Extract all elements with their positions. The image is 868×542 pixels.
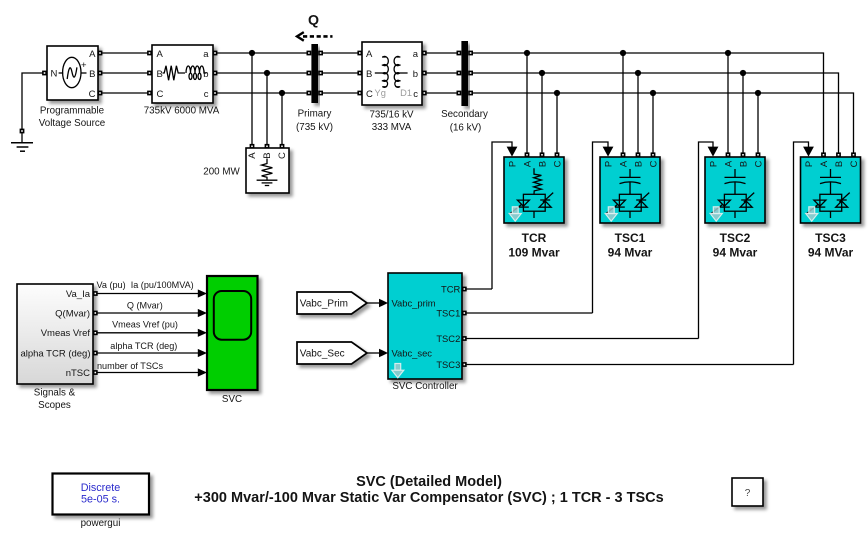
svg-text:B: B [157, 69, 163, 80]
svg-text:Scopes: Scopes [38, 400, 71, 411]
svg-text:Vmeas Vref (pu): Vmeas Vref (pu) [112, 320, 178, 330]
wire phase b transformer to secondary bus [427, 72, 459, 74]
svg-text:735kV 6000 MVA: 735kV 6000 MVA [144, 106, 220, 117]
junction load tap phase A [249, 50, 255, 56]
wire load drop phase C [280, 93, 285, 149]
subsystem Signals and Scopes [17, 284, 93, 384]
junction TSC1 phase B [635, 70, 641, 76]
controller U1 (SVC Controller) [388, 273, 462, 379]
svg-text:C: C [552, 160, 563, 167]
svg-text:A: A [247, 152, 258, 159]
wire phase C RL to primary bus [213, 91, 308, 96]
svg-text:Voltage Source: Voltage Source [39, 118, 106, 129]
svg-text:?: ? [745, 488, 751, 499]
svg-text:B: B [633, 161, 644, 167]
svg-text:5e-05 s.: 5e-05 s. [81, 493, 120, 505]
svg-text:B: B [537, 161, 548, 167]
svg-text:TSC1: TSC1 [436, 307, 460, 318]
wire TCR phase B drop [540, 73, 545, 157]
svg-text:SVC: SVC [222, 394, 242, 405]
wire TSC2 phase C drop [756, 93, 761, 157]
svg-text:109 Mvar: 109 Mvar [508, 246, 560, 260]
label 200 MW [203, 166, 240, 177]
svg-text:P: P [708, 161, 719, 167]
wire controller TCR output [462, 287, 492, 292]
svg-text:Va (pu) Ia (pu/100MVA): Va (pu) Ia (pu/100MVA) [97, 280, 194, 290]
wire phase c transformer to secondary bus [427, 92, 459, 94]
wire controller TSC1 output [462, 311, 593, 316]
junction TSC1 phase A [620, 50, 626, 56]
junction TCR phase A [524, 50, 530, 56]
svg-text:TSC2: TSC2 [720, 231, 751, 245]
svg-text:TSC3: TSC3 [815, 231, 846, 245]
svg-text:Vabc_Sec: Vabc_Sec [300, 349, 345, 360]
wire controller TSC3 output [462, 362, 794, 367]
label TSC2 94 Mvar [713, 231, 758, 260]
junction TSC2 phase A [725, 50, 731, 56]
node label Q [308, 13, 319, 29]
wire Vabc_Prim to controller [367, 299, 388, 308]
wire phase A RL to primary bus [213, 51, 308, 56]
svg-text:735/16 kV: 735/16 kV [369, 109, 414, 120]
wire phase C primary bus to transformer [323, 92, 360, 94]
from tag Vabc_Sec [297, 342, 367, 364]
wire load drop phase B [265, 73, 270, 149]
svg-text:b: b [413, 69, 418, 80]
signal label Vmeas Vref (pu) [112, 320, 178, 330]
label TCR 109 Mvar [508, 231, 560, 260]
svg-text:Q: Q [308, 13, 319, 29]
signal wire alpha TCR to scope [93, 349, 207, 357]
transformer T1 (735/16 kV 333 MVA) [357, 42, 426, 105]
label SVC [222, 394, 242, 405]
wire phase C source to RL [98, 91, 152, 96]
scope SVC [207, 276, 258, 390]
svg-text:a: a [203, 49, 209, 60]
help block ? [732, 478, 763, 506]
svg-text:94 MVar: 94 MVar [808, 246, 854, 260]
signal label Va (pu) Ia (pu/100MVA) [97, 280, 194, 290]
svg-text:Va_Ia: Va_Ia [66, 289, 91, 300]
svg-text:P: P [803, 161, 814, 167]
wire phase A secondary bus to TSC3 [473, 53, 826, 157]
junction TCR phase C [554, 90, 560, 96]
svg-text:A: A [723, 160, 734, 167]
label Signals & Scopes [34, 388, 76, 411]
svg-text:A: A [618, 160, 629, 167]
wire TSC2 pulse feed P [699, 142, 719, 339]
signal label alpha TCR (deg) [110, 341, 177, 351]
signal wire Vmeas Vref to scope [93, 329, 207, 337]
svg-text:C: C [848, 160, 859, 167]
svg-text:C: C [277, 152, 288, 159]
wire TSC1 phase B drop [636, 73, 641, 157]
label Programmable Voltage Source [39, 105, 106, 128]
svg-text:TSC1: TSC1 [615, 231, 646, 245]
load R1 (200 MW resistive load block) [246, 148, 289, 193]
wire phase B RL to primary bus [213, 71, 308, 76]
svg-text:C: C [753, 160, 764, 167]
svg-text:SVC Controller: SVC Controller [392, 381, 458, 392]
svg-text:c: c [413, 89, 418, 100]
wire source N to ground [20, 73, 43, 133]
svg-text:N: N [51, 69, 58, 80]
label SVC Controller [392, 381, 458, 392]
wire load drop phase A [250, 53, 255, 149]
label Primary (735 kV) [296, 109, 333, 134]
wire TCR phase C drop [555, 93, 560, 157]
from tag Vabc_Prim [297, 292, 367, 314]
ground [11, 133, 33, 151]
svg-text:C: C [366, 89, 373, 100]
svg-text:333 MVA: 333 MVA [372, 122, 412, 133]
wire TSC2 phase B drop [741, 73, 746, 157]
wire phase B source to RL [98, 71, 152, 76]
svg-text:A: A [89, 49, 96, 60]
annotation title [194, 474, 663, 506]
junction TSC1 phase C [650, 90, 656, 96]
svg-text:(16 kV): (16 kV) [450, 122, 482, 133]
svg-text:94 Mvar: 94 Mvar [608, 246, 653, 260]
wire TSC1 pulse feed P [593, 142, 614, 313]
label 735/16 kV 333 MVA [369, 109, 414, 133]
svg-text:nTSC: nTSC [66, 368, 90, 379]
svg-text:Vmeas Vref: Vmeas Vref [41, 328, 91, 339]
svg-text:number of TSCs: number of TSCs [97, 361, 163, 371]
svg-text:TCR: TCR [522, 231, 547, 245]
svg-text:Vabc_prim: Vabc_prim [392, 297, 436, 308]
svg-text:Secondary: Secondary [441, 109, 488, 120]
svg-text:B: B [738, 161, 749, 167]
svg-text:B: B [89, 69, 95, 80]
powergui block [53, 474, 150, 515]
svg-text:Primary: Primary [298, 109, 332, 120]
bus B2 Secondary (16 kV) [457, 41, 474, 106]
svg-text:TSC2: TSC2 [436, 333, 460, 344]
svg-text:Programmable: Programmable [40, 105, 105, 116]
svg-text:C: C [157, 89, 164, 100]
wire Vabc_Sec to controller [367, 349, 388, 358]
wire TCR pulse feed P [492, 142, 517, 289]
impedance Z1 (735kV 6000 MVA three-phase source impedance) [152, 45, 213, 103]
TSC1 branch block [600, 157, 660, 223]
svg-text:C: C [89, 89, 96, 100]
wire phase B primary bus to transformer [323, 72, 360, 74]
annotation arrow for Q direction [297, 32, 333, 41]
svg-text:Discrete: Discrete [81, 482, 121, 494]
TCR branch block [504, 157, 564, 223]
svg-text:Q(Mvar): Q(Mvar) [55, 308, 90, 319]
TSC3 branch block [801, 157, 861, 223]
svg-text:+300 Mvar/-100 Mvar Static Var: +300 Mvar/-100 Mvar Static Var Compensat… [194, 490, 663, 506]
wire TSC1 phase C drop [651, 93, 656, 157]
svg-text:P: P [507, 161, 518, 167]
junction load tap phase B [264, 70, 270, 76]
svg-text:A: A [157, 49, 164, 60]
signal label Q (Mvar) [127, 300, 163, 310]
svg-text:alpha TCR (deg): alpha TCR (deg) [110, 341, 177, 351]
svg-text:SVC (Detailed Model): SVC (Detailed Model) [356, 474, 502, 490]
signal wire Va_Ia to scope [93, 289, 207, 297]
svg-text:P: P [603, 161, 614, 167]
svg-text:Signals &: Signals & [34, 388, 76, 399]
svg-text:c: c [204, 89, 209, 100]
junction TCR phase B [539, 70, 545, 76]
svg-text:B: B [366, 69, 372, 80]
svg-text:A: A [366, 49, 373, 60]
svg-text:Vabc_Prim: Vabc_Prim [300, 299, 348, 310]
wire phase C secondary bus to TSC3 [473, 93, 856, 157]
wire controller TSC2 output [462, 336, 699, 341]
wire TSC2 phase A drop [726, 53, 731, 157]
signal wire nTSC to scope [93, 368, 207, 376]
signal label number of TSCs [97, 361, 163, 371]
svg-text:200 MW: 200 MW [203, 166, 240, 177]
svg-text:Q (Mvar): Q (Mvar) [127, 300, 163, 310]
svg-text:Yg: Yg [375, 88, 386, 98]
svg-text:powergui: powergui [81, 518, 121, 529]
label 735kV 6000 MVA [144, 106, 220, 117]
svg-text:TSC3: TSC3 [436, 359, 460, 370]
voltage source V1 (Programmable Voltage Source) [42, 46, 98, 100]
wire phase a transformer to secondary bus [427, 52, 459, 54]
label Secondary (16 kV) [441, 109, 488, 133]
svg-text:B: B [262, 152, 273, 158]
wire TSC3 pulse feed P [794, 142, 814, 365]
wire TSC1 phase A drop [621, 53, 626, 157]
junction load tap phase C [279, 90, 285, 96]
signal wire Q to scope [93, 309, 207, 317]
TSC2 branch block [705, 157, 765, 223]
svg-text:C: C [648, 160, 659, 167]
bus B1 Primary (735 kV) [307, 44, 324, 103]
svg-text:+: + [81, 60, 87, 71]
label TSC3 94 MVar [808, 231, 854, 260]
wire phase B secondary bus to TSC3 [473, 73, 841, 157]
svg-text:a: a [413, 49, 419, 60]
svg-text:TCR: TCR [441, 283, 460, 294]
wire phase A source to RL [98, 51, 152, 56]
svg-text:B: B [833, 161, 844, 167]
wire phase A primary bus to transformer [323, 52, 360, 54]
label powergui [81, 518, 121, 529]
svg-text:(735 kV): (735 kV) [296, 122, 333, 133]
junction TSC2 phase C [755, 90, 761, 96]
svg-text:A: A [818, 160, 829, 167]
wire TCR phase A drop [525, 53, 530, 157]
svg-text:Vabc_sec: Vabc_sec [392, 347, 433, 358]
junction TSC2 phase B [740, 70, 746, 76]
svg-text:94 Mvar: 94 Mvar [713, 246, 758, 260]
svg-text:A: A [522, 160, 533, 167]
svg-text:alpha TCR (deg): alpha TCR (deg) [20, 348, 90, 359]
label TSC1 94 Mvar [608, 231, 653, 260]
svg-text:D1: D1 [400, 88, 412, 98]
